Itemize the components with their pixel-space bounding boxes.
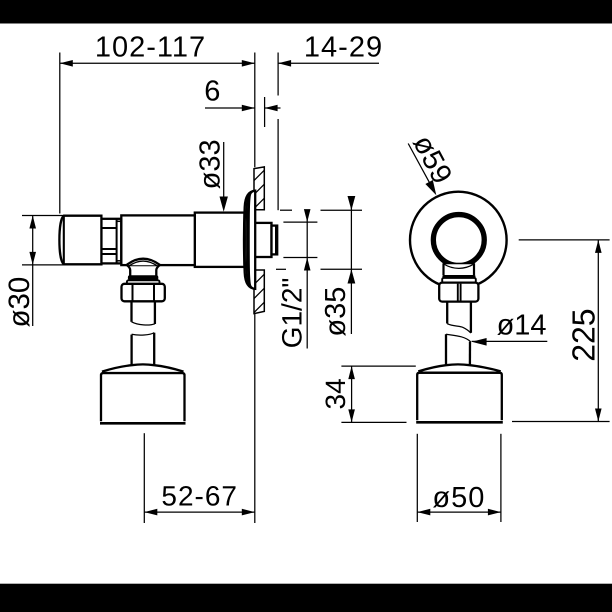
- svg-text:225: 225: [566, 308, 602, 361]
- leader o59: [408, 144, 430, 184]
- valve body main cylinder: [121, 215, 195, 265]
- dimension o30: [22, 215, 64, 217]
- svg-text:ø50: ø50: [432, 482, 485, 514]
- svg-text:14-29: 14-29: [304, 32, 383, 64]
- outlet neck: [127, 265, 131, 276]
- hex nut (front): [439, 283, 478, 302]
- bonnet / ribbed ring: [101, 219, 121, 264]
- svg-text:ø35: ø35: [320, 287, 352, 337]
- svg-text:ø14: ø14: [497, 310, 547, 342]
- supply pipe upper piece (front): [446, 302, 448, 324]
- ext line A lower (to 52-67): [254, 314, 256, 523]
- hex nut: [122, 284, 165, 302]
- dimension 102-117: [60, 62, 255, 64]
- svg-text:6: 6: [204, 76, 220, 108]
- outlet pipe upper piece: [130, 301, 132, 322]
- dimension o35: [280, 209, 292, 211]
- dimension 6: [205, 107, 255, 109]
- ext line C (nipple end): [277, 53, 279, 96]
- flange ring (front): [442, 278, 476, 283]
- nipple end cap: [272, 226, 278, 255]
- dimension 225: [519, 239, 610, 241]
- seal ring (dark band): [128, 275, 158, 280]
- leader o33: [223, 142, 225, 199]
- svg-text:ø33: ø33: [195, 139, 227, 189]
- svg-text:102-117: 102-117: [95, 32, 206, 64]
- dimension 34: [341, 365, 415, 367]
- svg-text:ø30: ø30: [3, 277, 36, 328]
- tube behind ring: [444, 263, 475, 275]
- dimension 14-29: [278, 62, 379, 64]
- handle: [59, 216, 101, 265]
- svg-text:G1/2": G1/2": [277, 278, 308, 349]
- escutcheon circle (front): [410, 192, 507, 289]
- flange ring: [127, 280, 160, 284]
- bottom letterbox bar: [0, 584, 612, 612]
- dimension o50: [416, 434, 418, 522]
- spout bell (front view): [417, 364, 502, 423]
- escutcheon (wall rosette, side): [244, 191, 255, 289]
- G1/2 nipple through wall: [250, 223, 272, 257]
- wall covering upper (hatched): [254, 167, 264, 210]
- outlet pipe lower piece: [132, 333, 155, 335]
- svg-text:52-67: 52-67: [161, 481, 238, 512]
- dimension 52-67: [144, 511, 255, 513]
- ext line A (flange face) upper: [254, 53, 256, 168]
- ext line B (wall face): [264, 97, 266, 127]
- connection ring outer: [432, 213, 485, 266]
- ring lower arc seen through tube: [444, 264, 474, 268]
- connection ring inner: [435, 216, 484, 265]
- svg-text:34: 34: [320, 378, 351, 409]
- top letterbox bar: [0, 0, 612, 24]
- washer (dark band): [442, 275, 475, 278]
- supply pipe lower piece (front): [446, 334, 471, 342]
- leader o14: [472, 340, 548, 342]
- spout bell (left view): [101, 364, 185, 423]
- wall covering lower (hatched): [254, 270, 264, 314]
- centerline below left spout: [143, 433, 145, 523]
- valve body wide section: [195, 213, 245, 267]
- dimension G1/2": [283, 221, 317, 223]
- ext line left of 102-117: [59, 53, 61, 214]
- outlet dome: [127, 259, 160, 266]
